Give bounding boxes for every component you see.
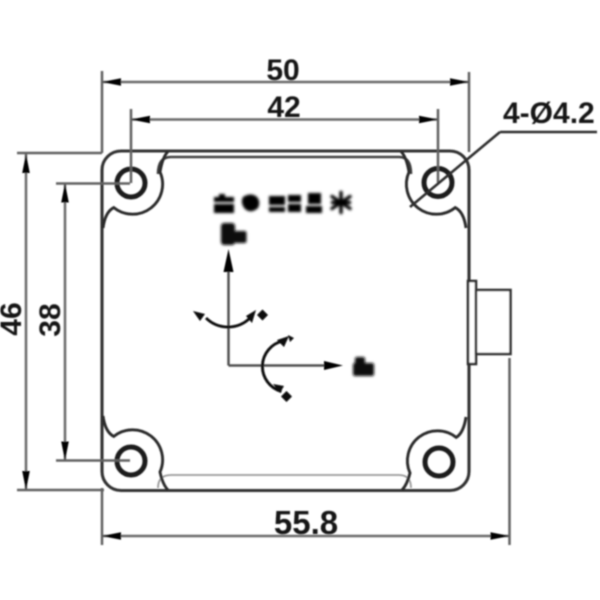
axis horizontal line: [229, 364, 327, 367]
extension line 46 bottom: [17, 489, 104, 492]
dimension 55.8 arrow right: [491, 532, 510, 540]
yaw arc right arrowhead: [246, 310, 256, 323]
extension line 46 top: [17, 152, 102, 155]
mounting hole BR: [425, 448, 453, 476]
axis vertical arrowhead: [224, 249, 234, 272]
body outline: [102, 151, 469, 491]
dimension 50 arrow left: [102, 78, 121, 86]
product label glyph row: [214, 193, 322, 213]
inner bottom edge line: [158, 475, 411, 488]
yaw arc left tick: [193, 311, 205, 321]
pitch arc bottom arrowhead: [273, 384, 284, 393]
mounting hole TR: [424, 169, 452, 197]
axis vertical line: [227, 268, 230, 366]
dimension 38 line: [64, 184, 67, 461]
leader 4-d4.2 underline: [500, 131, 597, 134]
dimension 55.8 arrow left: [102, 532, 121, 540]
svg-text:42: 42: [267, 91, 300, 124]
svg-text:4-Ø4.2: 4-Ø4.2: [503, 97, 595, 130]
pitch arc diamond: [281, 391, 292, 402]
svg-text:55.8: 55.8: [274, 504, 338, 541]
product label asterisk glyph: [332, 193, 350, 213]
leader 4-d4.2 diagonal: [410, 132, 500, 207]
pitch arc top arrowhead: [277, 336, 289, 347]
extension line 38 bottom: [56, 459, 130, 462]
svg-text:46: 46: [0, 302, 28, 335]
dimension 42 arrow right: [419, 116, 438, 124]
dimension 50 arrow right: [450, 78, 469, 86]
svg-text:50: 50: [266, 54, 299, 87]
pitch arc: [262, 341, 283, 392]
dimension 46 arrow top: [22, 154, 30, 173]
extension line 38 top: [56, 182, 130, 185]
extension line right for 50: [468, 72, 471, 152]
corner pad BR: [402, 417, 466, 490]
mounting hole TL: [117, 169, 145, 197]
inner top edge line: [158, 157, 411, 174]
corner pad BL: [103, 416, 168, 490]
dimension 46 line: [25, 154, 28, 490]
extension line 42 left: [130, 109, 133, 183]
yaw arc: [206, 318, 250, 327]
connector flange: [468, 281, 476, 364]
dimension 55.8 line: [102, 535, 510, 538]
corner pad TR: [401, 152, 466, 229]
dimension 38 arrow bottom: [61, 442, 69, 461]
mounting hole BL: [117, 447, 145, 475]
dimension 50 line: [102, 81, 469, 84]
dimension 42 arrow left: [131, 116, 150, 124]
extension line left (body edge / 50 / 55.8): [101, 71, 104, 153]
yaw arc diamond: [257, 310, 268, 321]
dimension 38 arrow top: [61, 184, 69, 203]
extension line 55.8 right: [508, 358, 511, 545]
connector body: [476, 290, 511, 354]
right axis glyph: [353, 357, 374, 376]
extension line 42 right: [437, 109, 440, 183]
corner pad TL: [103, 152, 168, 229]
dimension 42 line: [131, 118, 438, 121]
pitch arc top tick: [288, 335, 294, 342]
up axis glyph: [221, 223, 247, 245]
svg-text:38: 38: [34, 303, 67, 336]
dimension 46 arrow bottom: [22, 471, 30, 490]
axis horizontal arrowhead: [324, 361, 343, 370]
